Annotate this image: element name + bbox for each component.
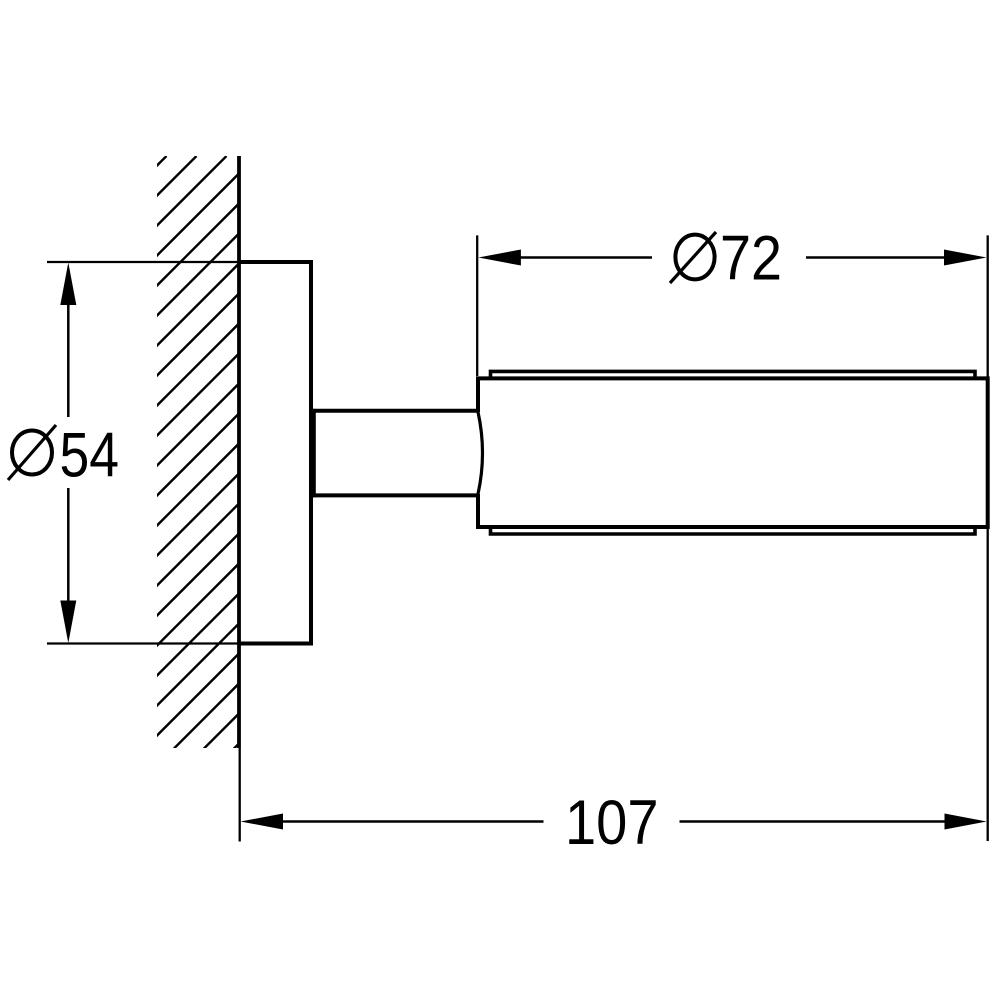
wall mounting plate xyxy=(239,262,311,644)
arrow O72 right xyxy=(944,250,987,266)
stem top line xyxy=(311,409,478,413)
extension line O54 bottom xyxy=(47,642,240,644)
arrow 107 left xyxy=(241,814,284,830)
arrow 107 right xyxy=(945,814,987,830)
svg-text:54: 54 xyxy=(60,421,120,491)
svg-text:72: 72 xyxy=(720,224,782,294)
stem bottom line xyxy=(311,493,478,497)
holder lip bottom xyxy=(491,527,976,534)
stem end cap at plate xyxy=(312,409,316,497)
holder end-cap arc xyxy=(478,412,483,494)
arrow O54 top xyxy=(60,263,76,306)
svg-text:107: 107 xyxy=(565,788,659,858)
arrow O72 left xyxy=(478,250,521,266)
dimension line O54 xyxy=(67,303,70,417)
holder body outline xyxy=(478,378,988,527)
label O72 xyxy=(670,224,782,294)
extension line 107 left xyxy=(239,748,241,842)
arrow O54 bottom xyxy=(60,601,76,644)
holder lip top xyxy=(491,371,976,378)
wall section hatching xyxy=(0,156,827,900)
dimension line O72 xyxy=(519,256,652,259)
label O54 xyxy=(8,421,119,491)
extension line O72 left xyxy=(476,235,478,376)
extension line O72 right / 107 right xyxy=(987,235,989,841)
extension line O54 top xyxy=(47,261,240,263)
wall face line xyxy=(237,156,241,748)
dimension line 107 xyxy=(281,820,544,823)
